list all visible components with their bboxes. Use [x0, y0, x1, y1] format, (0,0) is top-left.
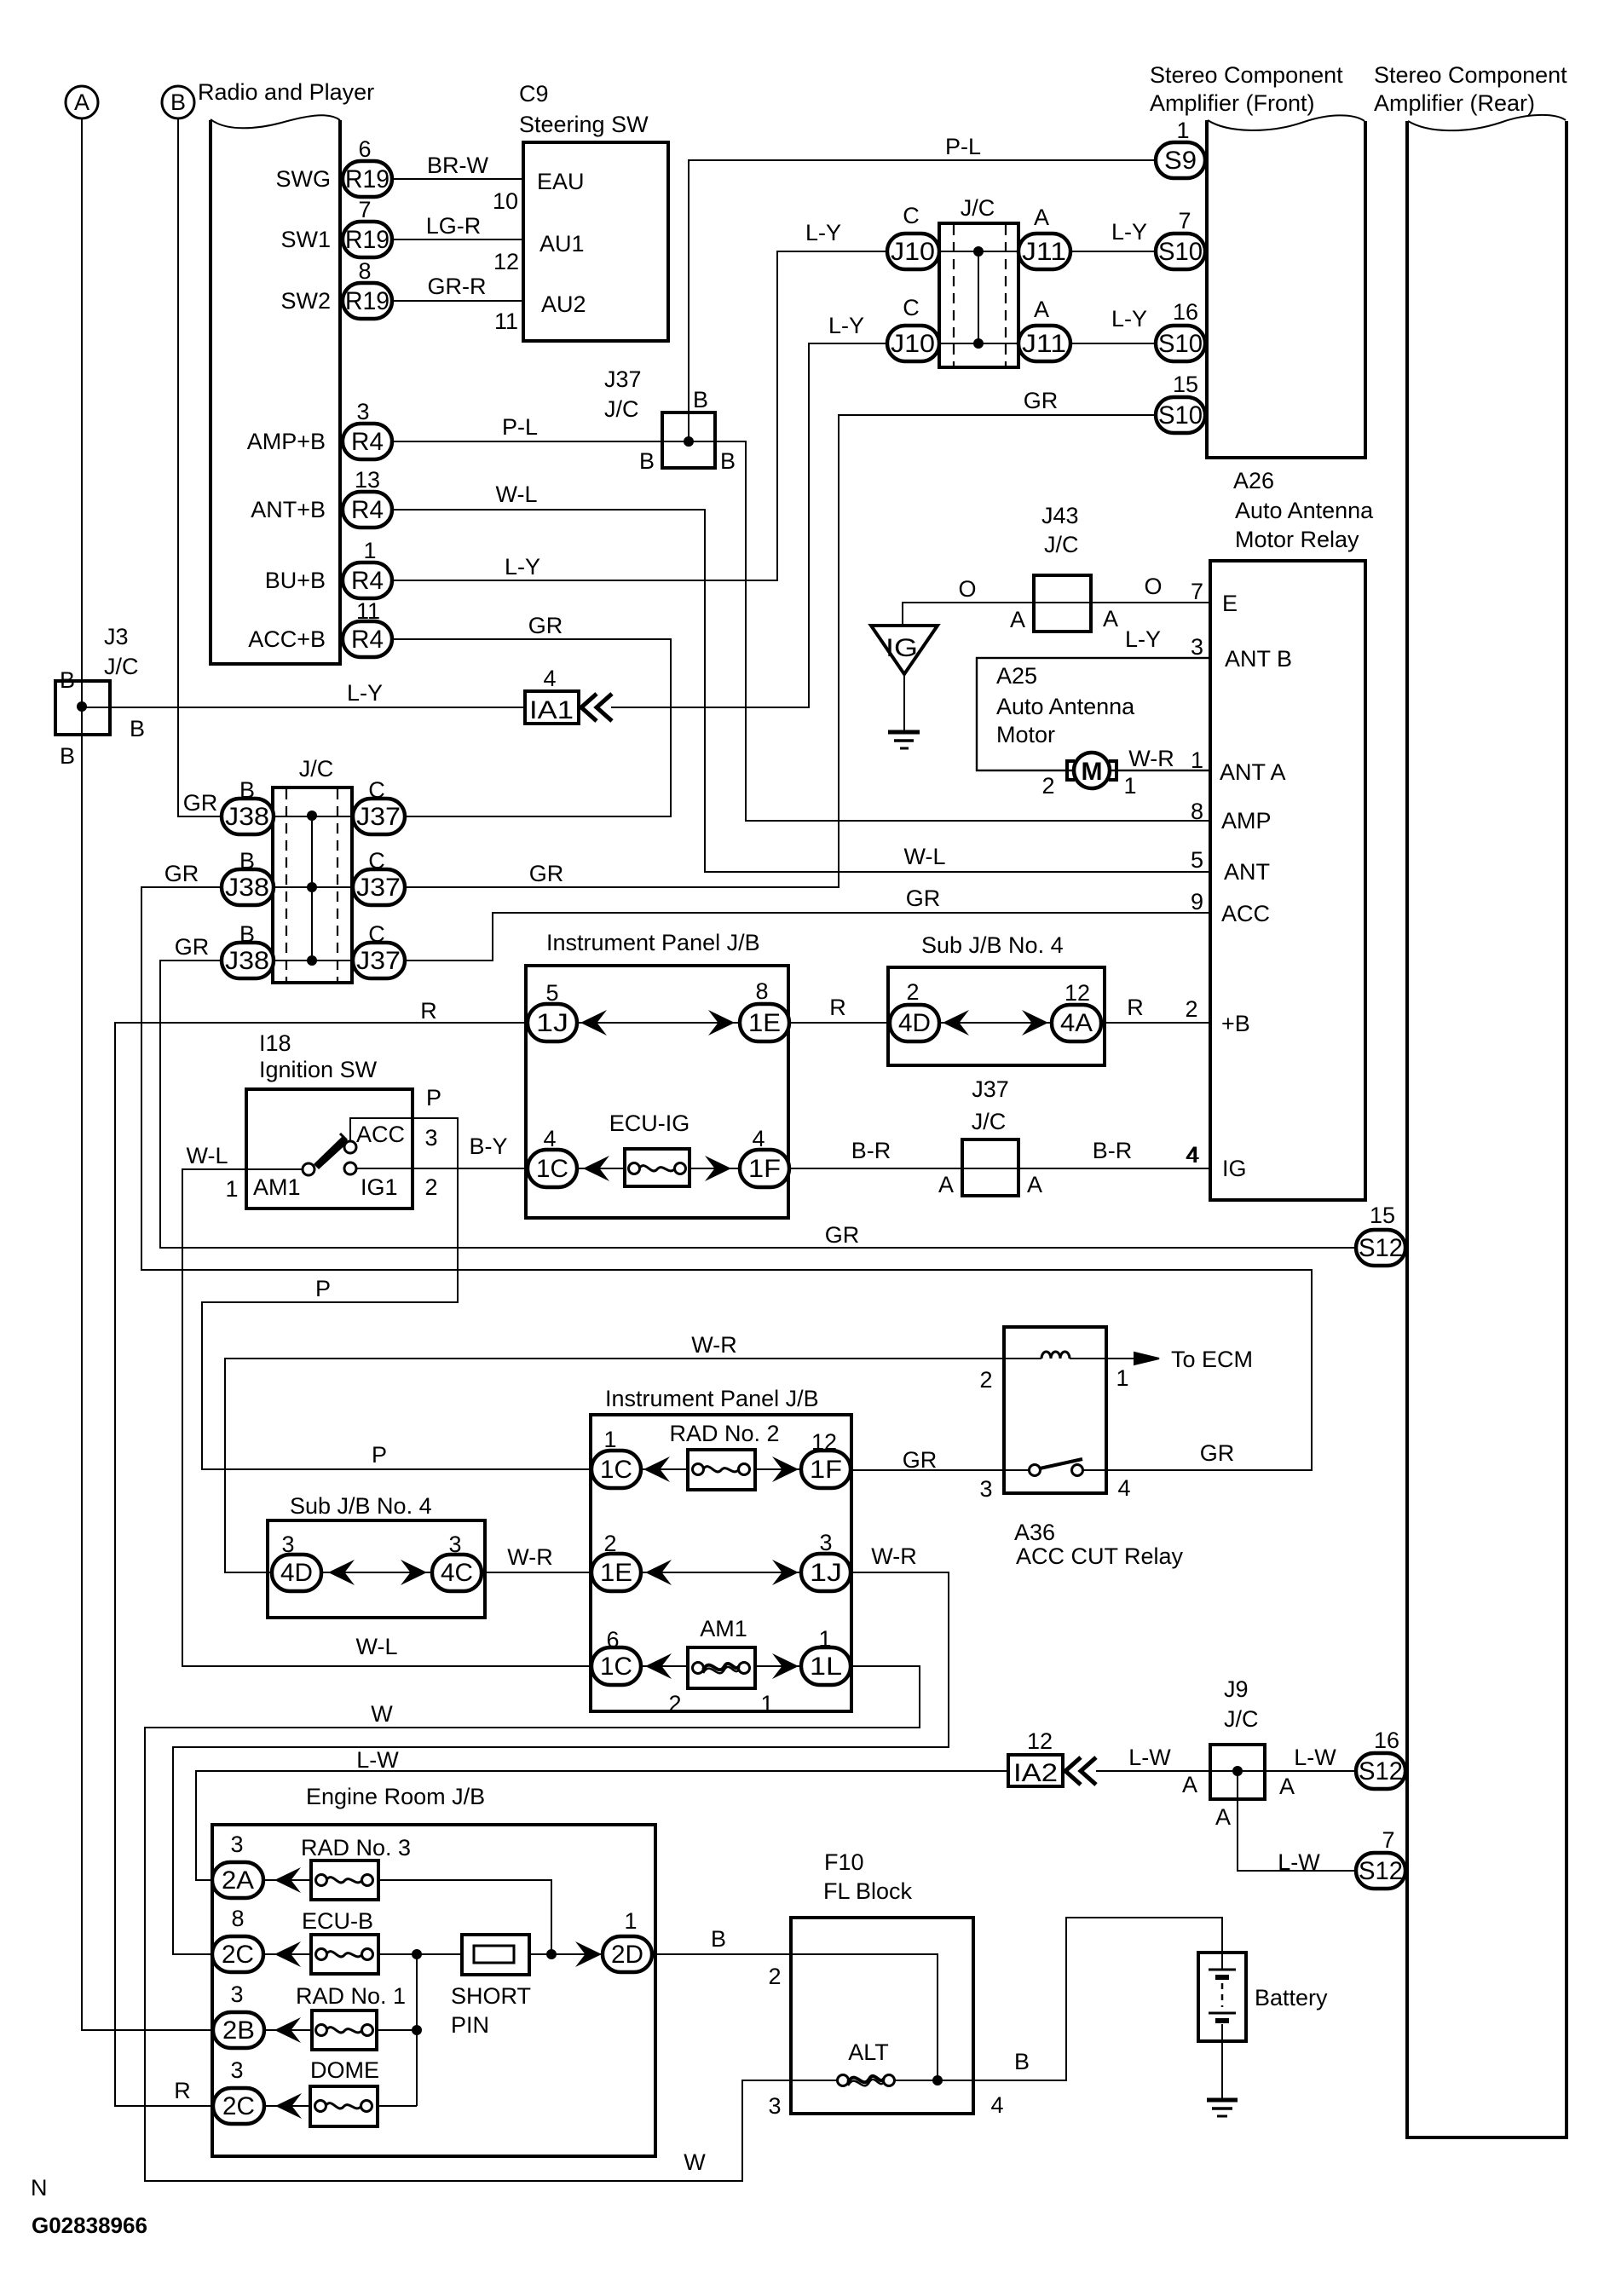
connector 2C pin 8 [212, 1906, 263, 1972]
connector 1J pin 5 [528, 980, 577, 1041]
svg-text:L-Y: L-Y [505, 554, 540, 580]
svg-text:L-W: L-W [356, 1747, 399, 1773]
svg-text:2A: 2A [222, 1866, 254, 1895]
svg-text:B: B [693, 387, 708, 412]
connector 4D pin 2 [890, 979, 939, 1041]
svg-text:J37: J37 [972, 1076, 1009, 1102]
connector J11 lower pin A [1018, 297, 1070, 361]
svg-text:B: B [711, 1926, 726, 1952]
ECU-B row [263, 1953, 603, 1955]
connector IA2 pin 12 [1008, 1728, 1063, 1787]
svg-text:GR: GR [1024, 388, 1059, 413]
svg-text:A: A [1010, 607, 1025, 632]
svg-text:4A: 4A [1060, 1009, 1093, 1037]
svg-text:4: 4 [990, 2092, 1003, 2118]
arrow right 1F [705, 1156, 731, 1181]
svg-text:W-R: W-R [691, 1332, 737, 1358]
FL block internal wire [791, 1954, 938, 2080]
svg-text:N: N [31, 2175, 48, 2201]
svg-text:ALT: ALT [848, 2039, 889, 2065]
svg-text:7: 7 [1382, 1827, 1394, 1853]
svg-text:IA2: IA2 [1013, 1759, 1058, 1787]
svg-text:16: 16 [1173, 299, 1198, 325]
Sub J/B No. 4 box (upper) [888, 932, 1105, 1065]
arrow left 1C [583, 1156, 609, 1181]
svg-text:F10: F10 [824, 1849, 864, 1875]
wire LG-R to C9 [392, 213, 523, 239]
svg-text:P-L: P-L [502, 414, 538, 440]
svg-text:1F: 1F [748, 1155, 781, 1183]
svg-text:M: M [1082, 758, 1103, 786]
svg-text:C9: C9 [519, 81, 549, 107]
wire GR-R to C9 [392, 274, 523, 301]
svg-text:LG-R: LG-R [426, 213, 482, 239]
svg-text:R4: R4 [351, 626, 384, 654]
svg-text:Radio and Player: Radio and Player [198, 79, 374, 105]
svg-text:B: B [130, 716, 145, 741]
svg-text:W: W [684, 2149, 706, 2175]
connector 4D pin 3 [272, 1532, 321, 1591]
wire W-L from AM1 contact to second JB 1C6 [182, 1143, 591, 1666]
fuse RAD No. 2 [669, 1421, 779, 1490]
svg-text:J38: J38 [225, 803, 269, 831]
svg-text:ACC: ACC [1221, 901, 1270, 926]
svg-text:S12: S12 [1359, 1757, 1403, 1785]
wire AM1 row [641, 1665, 801, 1667]
ground below IG triangle [888, 674, 920, 748]
svg-text:W-R: W-R [1128, 746, 1174, 771]
wire W-L from ANT+B to A26 ANT pin [392, 482, 1210, 872]
svg-text:3: 3 [448, 1532, 461, 1557]
svg-text:P-L: P-L [945, 134, 981, 159]
connector 1E pin 8 [740, 978, 789, 1041]
arrow right 1J row2 [772, 1560, 799, 1585]
connector 4A pin 12 [1052, 980, 1101, 1041]
svg-text:Steering SW: Steering SW [519, 112, 649, 137]
svg-text:BR-W: BR-W [427, 153, 488, 178]
svg-text:J10: J10 [891, 238, 935, 266]
svg-text:4: 4 [1117, 1475, 1130, 1501]
svg-text:R: R [829, 995, 846, 1020]
fusible link ALT [791, 2039, 973, 2086]
wire R from 1J down to DOME 2C [115, 998, 528, 2106]
connector S10 pin 16 [1156, 299, 1205, 361]
svg-text:GR: GR [903, 1447, 938, 1473]
svg-text:4: 4 [1186, 1142, 1198, 1168]
wire 4D to 4A [939, 1022, 1052, 1024]
connector 1E pin 2 [591, 1531, 641, 1591]
fuse ECU-IG [609, 1111, 690, 1186]
wire L-Y from J3 to IA1 [110, 680, 525, 707]
svg-text:B: B [720, 448, 736, 474]
svg-text:W-R: W-R [507, 1544, 553, 1570]
connector 2C pin 3 DOME [213, 2057, 264, 2124]
svg-text:L-Y: L-Y [805, 220, 841, 245]
svg-text:P: P [315, 1276, 331, 1301]
svg-text:J37: J37 [356, 803, 401, 831]
motor M in A25 [1041, 746, 1210, 799]
wire RAD No.2 row [641, 1468, 801, 1470]
svg-text:AU2: AU2 [541, 291, 586, 317]
svg-text:10: 10 [493, 188, 518, 214]
Radio and Player box [198, 79, 374, 664]
fuse RAD No. 1 [296, 1983, 406, 2050]
wire J11 upper to S10 [1070, 219, 1157, 251]
svg-text:2: 2 [1041, 773, 1054, 799]
svg-text:11: 11 [494, 309, 518, 334]
svg-text:BU+B: BU+B [265, 568, 326, 593]
svg-text:1C: 1C [600, 1456, 632, 1484]
svg-text:RAD No. 2: RAD No. 2 [669, 1421, 779, 1446]
svg-text:AMP: AMP [1221, 808, 1272, 834]
svg-text:E: E [1222, 591, 1238, 616]
svg-text:W-L: W-L [903, 844, 945, 869]
wire GR J37 middle to S10 pin 15 [404, 388, 1157, 887]
svg-text:SHORT: SHORT [451, 1983, 531, 2009]
arrow left 1J [580, 1010, 607, 1036]
svg-text:8: 8 [358, 258, 371, 284]
svg-text:IA1: IA1 [529, 696, 574, 724]
svg-text:A: A [74, 89, 89, 115]
wire L-W from 2A to IA2 [196, 1747, 1008, 1880]
svg-text:15: 15 [1173, 372, 1198, 397]
connector S9 pin 1 [1156, 118, 1205, 178]
svg-text:B: B [1014, 2049, 1030, 2074]
svg-text:1L: 1L [810, 1653, 842, 1681]
svg-text:L-Y: L-Y [347, 680, 383, 706]
svg-text:J/C: J/C [961, 195, 995, 221]
svg-text:ANT: ANT [1224, 859, 1270, 885]
node A circle [66, 86, 98, 118]
svg-text:R4: R4 [351, 496, 384, 524]
wire W from 1L to FL block pin 3 [145, 1666, 920, 2181]
wire P from ACC contact down to second JB 1C [202, 1085, 591, 1469]
junction connector J38/J37 J/C box [273, 756, 353, 983]
connector S12 pin 7 [1356, 1827, 1405, 1889]
arrow right 4C [401, 1560, 427, 1585]
svg-text:B-R: B-R [1093, 1138, 1133, 1163]
svg-text:2: 2 [603, 1531, 616, 1556]
connector 1C pin 6 [591, 1627, 641, 1685]
svg-text:1C: 1C [536, 1155, 568, 1183]
svg-text:A: A [1182, 1772, 1197, 1797]
svg-text:S9: S9 [1164, 147, 1197, 175]
svg-text:G02838966: G02838966 [32, 2212, 147, 2238]
svg-text:IG1: IG1 [361, 1174, 398, 1200]
junction J3 J/C box [55, 624, 145, 769]
wire W-R 4C to 1E [482, 1544, 591, 1572]
Battery [1198, 1953, 1328, 2041]
arrow To ECM [1134, 1347, 1253, 1372]
svg-text:12: 12 [811, 1429, 837, 1455]
svg-text:B: B [639, 448, 655, 474]
fuse ECU-B [302, 1908, 378, 1974]
connector J10 lower pin C [828, 295, 939, 361]
svg-text:GR: GR [1200, 1440, 1235, 1466]
svg-text:A36: A36 [1014, 1520, 1055, 1545]
svg-text:2: 2 [768, 1964, 781, 1989]
svg-text:2: 2 [906, 979, 919, 1005]
arrow left 2B [274, 2017, 301, 2043]
svg-text:GR: GR [825, 1222, 860, 1248]
wire GR J38 bottom to S12 pin 15 [160, 961, 1357, 1248]
svg-text:7: 7 [1178, 208, 1191, 234]
svg-text:W-R: W-R [871, 1543, 917, 1569]
svg-text:R19: R19 [345, 165, 389, 193]
arrow right 1L row3 [772, 1653, 799, 1679]
svg-text:3: 3 [281, 1532, 294, 1557]
wire B from 2D to FL block pin 2 [650, 1926, 791, 1954]
svg-text:B: B [239, 777, 255, 803]
svg-text:J/C: J/C [104, 654, 139, 679]
svg-text:AMP+B: AMP+B [247, 429, 326, 454]
svg-text:4: 4 [543, 666, 556, 691]
arrow left 4D lower [328, 1560, 355, 1585]
svg-text:B: B [60, 667, 75, 693]
svg-text:J/C: J/C [604, 396, 639, 422]
wire B from FL pin 4 to battery [973, 1918, 1222, 2080]
svg-text:Engine Room J/B: Engine Room J/B [306, 1784, 485, 1809]
wire GR J37 bottom to A26 ACC pin [404, 886, 1210, 961]
connector R19 pin 8 [343, 258, 392, 319]
connector J10 upper pin C [887, 203, 939, 269]
svg-text:L-Y: L-Y [1111, 219, 1147, 245]
svg-text:B-R: B-R [851, 1138, 891, 1163]
svg-text:Auto Antenna: Auto Antenna [1235, 498, 1374, 523]
svg-text:R19: R19 [345, 226, 389, 254]
svg-text:A: A [1034, 297, 1049, 322]
svg-text:6: 6 [606, 1627, 619, 1653]
svg-text:16: 16 [1374, 1728, 1399, 1753]
DOME row [264, 2105, 417, 2107]
connector S10 pin 7 [1156, 208, 1205, 269]
arrow left 4D [943, 1010, 969, 1036]
svg-text:7: 7 [358, 197, 371, 222]
svg-text:B: B [239, 921, 255, 947]
svg-text:J/C: J/C [972, 1109, 1007, 1134]
F10 FL Block box [768, 1849, 1003, 2119]
svg-text:GR-R: GR-R [428, 274, 487, 299]
Stereo Component Amplifier (Rear) box [1374, 62, 1567, 2137]
svg-text:3: 3 [424, 1125, 437, 1151]
connector 1F pin 12 [801, 1429, 851, 1488]
svg-text:2C: 2C [222, 2092, 255, 2120]
svg-text:GR: GR [175, 934, 210, 960]
svg-text:Sub J/B No. 4: Sub J/B No. 4 [921, 932, 1064, 958]
connector R4 pin 3 [343, 399, 392, 459]
svg-text:B-Y: B-Y [469, 1134, 507, 1159]
svg-text:3: 3 [230, 1832, 243, 1857]
svg-text:1C: 1C [600, 1653, 632, 1681]
arrow left 2C ECU-B [274, 1941, 301, 1967]
connector S12 pin 16 [1356, 1728, 1405, 1789]
wire BR-W to C9 [392, 153, 523, 179]
wire L-W IA2 to J9 to S12 pin 16 [1096, 1745, 1357, 1771]
wire W-R 1J to ECU-B 2C [173, 1543, 949, 1954]
svg-text:5: 5 [1191, 847, 1203, 873]
arrow left 1C row3 [645, 1653, 672, 1679]
svg-text:L-Y: L-Y [828, 313, 864, 338]
svg-text:J38: J38 [225, 947, 269, 975]
relay coil [1004, 1352, 1134, 1359]
svg-text:P: P [372, 1442, 387, 1468]
svg-text:2: 2 [1185, 996, 1197, 1022]
svg-text:C: C [903, 295, 920, 320]
svg-text:8: 8 [1191, 799, 1203, 824]
svg-text:S10: S10 [1158, 238, 1203, 266]
svg-text:O: O [1144, 574, 1162, 599]
svg-text:L-Y: L-Y [1111, 306, 1147, 332]
A26 pin labels [1186, 579, 1292, 1181]
svg-text:A: A [1279, 1774, 1295, 1799]
svg-text:Auto Antenna: Auto Antenna [996, 694, 1135, 719]
connector S12 pin 15 [1356, 1203, 1405, 1266]
arrow left 1C row1 [643, 1457, 670, 1482]
RAD No.1 row [263, 2029, 417, 2031]
junction connector J10/J11 J/C box [939, 195, 1018, 367]
connector J37 bottom pin C [353, 921, 405, 978]
junction J9 J/C box [1182, 1676, 1295, 1830]
wire P-L from AMP+B to J37 J/C [392, 414, 662, 441]
svg-text:3: 3 [768, 2093, 781, 2119]
relay switch contacts [851, 1440, 1234, 1476]
A26 Auto Antenna Motor Relay box [1210, 468, 1374, 1200]
wire W-R from 4D to relay coil pin 2 [225, 1332, 1004, 1572]
wire R 1E to 4D [788, 995, 890, 1023]
svg-text:A26: A26 [1233, 468, 1274, 493]
connector J38 middle pin B [164, 848, 274, 905]
svg-text:3: 3 [819, 1530, 832, 1555]
connector J38 upper pin B [183, 777, 274, 834]
svg-text:12: 12 [493, 249, 519, 274]
svg-text:R: R [174, 2078, 191, 2103]
svg-text:DOME: DOME [310, 2057, 379, 2083]
svg-text:R19: R19 [345, 287, 389, 315]
svg-text:A: A [938, 1172, 954, 1197]
svg-text:C: C [368, 777, 385, 803]
SHORT PIN [451, 1935, 531, 2038]
svg-text:6: 6 [358, 136, 371, 162]
svg-text:1E: 1E [600, 1559, 632, 1587]
svg-text:1: 1 [1123, 773, 1136, 799]
svg-text:SW1: SW1 [280, 227, 331, 252]
IA1 chevron arrows [581, 694, 612, 721]
svg-text:J37: J37 [356, 947, 401, 975]
svg-text:ECU-IG: ECU-IG [609, 1111, 690, 1136]
svg-text:GR: GR [906, 886, 941, 911]
fuse RAD No. 3 [301, 1835, 411, 1900]
svg-text:To ECM: To ECM [1171, 1347, 1253, 1372]
svg-text:A: A [1027, 1172, 1042, 1197]
svg-text:2B: 2B [222, 2016, 255, 2045]
svg-text:Instrument Panel J/B: Instrument Panel J/B [605, 1386, 819, 1411]
svg-text:Motor Relay: Motor Relay [1235, 527, 1359, 552]
svg-text:J/C: J/C [1224, 1706, 1259, 1732]
svg-text:W-L: W-L [495, 482, 537, 507]
svg-text:GR: GR [164, 861, 199, 886]
connector 2A pin 3 [212, 1832, 263, 1898]
svg-text:1E: 1E [748, 1009, 781, 1037]
svg-text:O: O [958, 576, 976, 602]
wire J11 lower to S10 [1070, 306, 1157, 343]
svg-text:3: 3 [230, 1982, 243, 2007]
svg-text:W-L: W-L [186, 1143, 228, 1168]
connector J37 middle pin C [353, 848, 405, 905]
connector IA1 pin 4 [525, 666, 579, 724]
svg-text:W: W [371, 1701, 393, 1727]
svg-text:S10: S10 [1158, 401, 1203, 430]
IA2 chevron arrows [1065, 1757, 1096, 1785]
svg-text:GR: GR [529, 861, 564, 886]
svg-text:ANT B: ANT B [1225, 646, 1292, 672]
svg-text:3: 3 [1191, 634, 1203, 660]
svg-text:Ignition SW: Ignition SW [259, 1057, 378, 1082]
svg-text:2: 2 [424, 1174, 437, 1200]
svg-text:SW2: SW2 [280, 288, 331, 314]
junction J43 J/C box [1010, 503, 1118, 632]
svg-text:Motor: Motor [996, 722, 1055, 747]
svg-text:12: 12 [1027, 1728, 1053, 1754]
arrow right 2D [575, 1941, 602, 1967]
junction J37 J/C lower box [938, 1076, 1200, 1197]
wire B-R from 1F to A26 IG pin via J37 [789, 1138, 1210, 1168]
connector 1J pin 3 [801, 1530, 851, 1591]
Engine Room J/B box [212, 1784, 655, 2156]
svg-text:13: 13 [355, 467, 380, 493]
svg-text:ANT+B: ANT+B [251, 497, 326, 522]
svg-text:J38: J38 [225, 874, 269, 902]
arrow right 4A [1022, 1010, 1048, 1036]
svg-text:1J: 1J [536, 1009, 568, 1037]
svg-text:R: R [1127, 995, 1144, 1020]
wire vertical junction to RAD1 and DOME [416, 1954, 418, 2106]
wire O from IG to A26 E pin via J43 [903, 574, 1210, 626]
connector S10 pin 15 [1156, 372, 1205, 433]
arrow left 2C DOME [275, 2093, 302, 2119]
svg-text:2C: 2C [222, 1941, 254, 1969]
svg-text:J37: J37 [604, 366, 642, 392]
svg-text:1: 1 [1116, 1365, 1128, 1391]
Sub J/B No. 4 box (lower) [268, 1493, 485, 1618]
svg-text:ACC: ACC [356, 1122, 405, 1147]
arrow right 1F row1 [772, 1457, 799, 1482]
svg-text:4: 4 [752, 1126, 764, 1151]
arrow left 1E row2 [645, 1560, 672, 1585]
connector J38 bottom pin B [175, 921, 274, 978]
svg-text:J3: J3 [104, 624, 129, 649]
ignition contacts and lever [303, 1134, 356, 1175]
svg-text:J11: J11 [1022, 330, 1066, 358]
connector 1C pin 1 [591, 1427, 641, 1488]
connector 1F pin 4 [740, 1126, 789, 1187]
svg-text:A: A [1034, 205, 1049, 230]
svg-text:Instrument Panel J/B: Instrument Panel J/B [546, 930, 760, 955]
svg-text:EAU: EAU [537, 169, 585, 194]
connector 2D pin 1 [603, 1908, 652, 1972]
svg-text:3: 3 [979, 1476, 992, 1502]
svg-text:8: 8 [231, 1906, 244, 1931]
wire A vertical to 2B row [82, 118, 215, 2030]
svg-text:1F: 1F [810, 1456, 842, 1484]
svg-text:P: P [426, 1085, 441, 1111]
ground below battery [1207, 2024, 1238, 2116]
svg-text:S10: S10 [1158, 330, 1203, 358]
wire 1J to 1E [577, 1022, 741, 1024]
svg-text:Stereo Component: Stereo Component [1374, 62, 1567, 88]
wire R 4A to A26 +B pin 2 [1101, 995, 1210, 1023]
svg-text:AM1: AM1 [700, 1616, 747, 1641]
wire P-L through J37 to S9 [689, 134, 1156, 441]
